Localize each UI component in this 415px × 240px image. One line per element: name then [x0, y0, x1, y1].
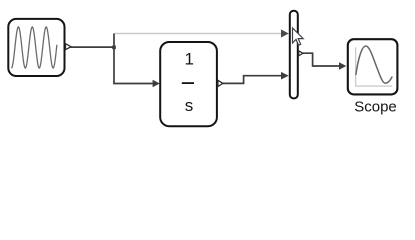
svg-text:Scope: Scope	[354, 99, 397, 116]
svg-text:1: 1	[184, 50, 193, 69]
svg-text:s: s	[185, 96, 194, 115]
